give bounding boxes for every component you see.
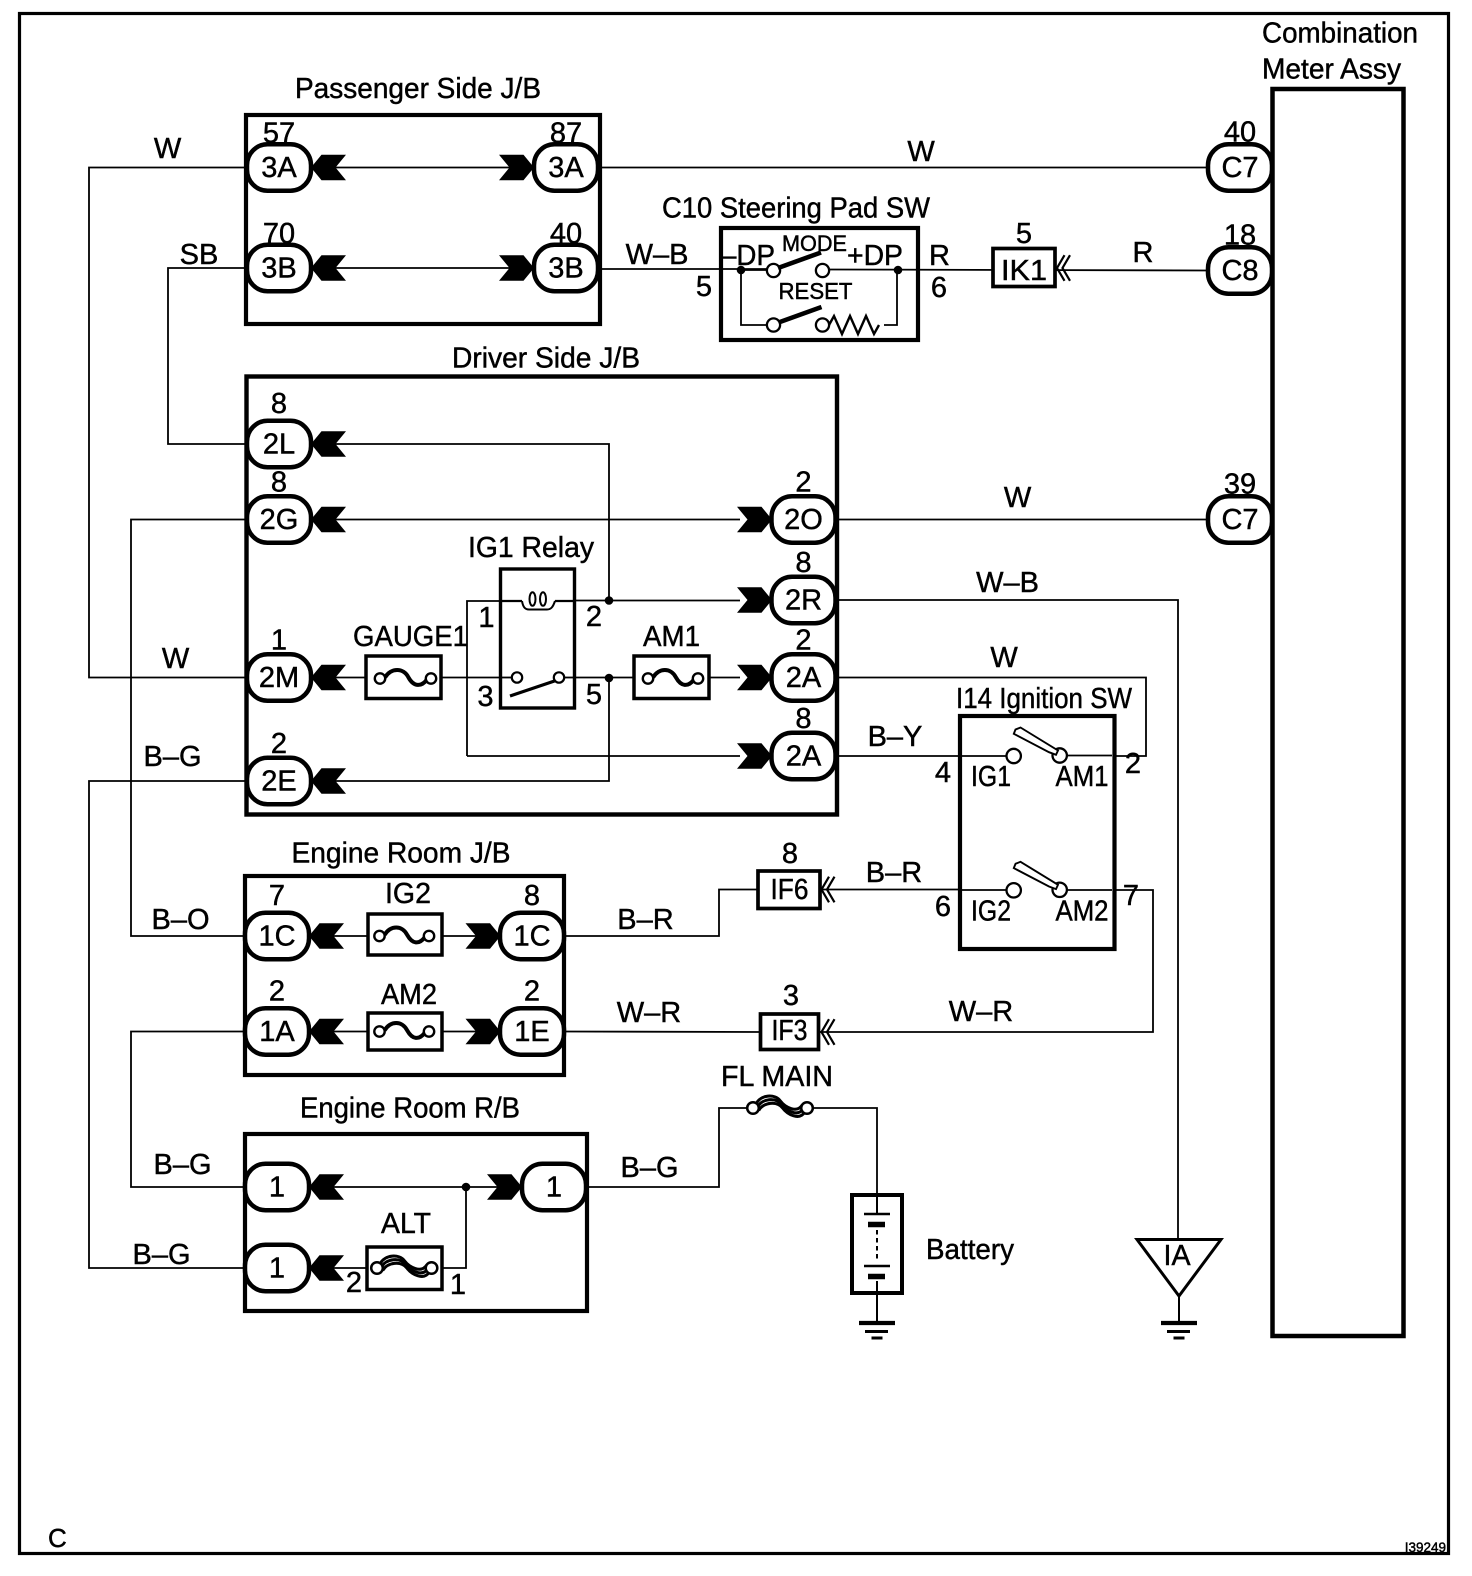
arrow into 1E <box>466 1019 501 1044</box>
svg-text:2: 2 <box>524 976 540 1008</box>
connector 3B pin 70 <box>247 218 311 291</box>
svg-text:R: R <box>929 240 950 272</box>
I14 ignition switch box <box>960 716 1115 949</box>
connector IF6 pin 8 <box>758 838 835 909</box>
svg-text:2A: 2A <box>786 741 822 773</box>
combination meter assy box <box>1273 89 1404 1336</box>
svg-text:57: 57 <box>263 118 295 150</box>
junction dot relay pin2 node <box>605 596 614 605</box>
svg-text:3: 3 <box>783 980 799 1012</box>
wire inside Passenger J/B row 3B <box>311 267 534 269</box>
wire inside Passenger J/B row 3A <box>311 167 534 169</box>
connector 2E pin 2 <box>247 728 311 804</box>
arrow into 2E <box>311 768 346 793</box>
wire B-R: IF6 to ignition switch pin 6 IG2 <box>820 889 962 891</box>
svg-text:B–G: B–G <box>143 741 201 773</box>
wire inside Engine Room J/B row 1A <box>309 1031 502 1033</box>
svg-text:W: W <box>990 642 1018 674</box>
svg-text:40: 40 <box>1224 117 1256 149</box>
svg-text:2: 2 <box>586 601 602 633</box>
svg-text:8: 8 <box>795 547 811 579</box>
svg-text:Meter Assy: Meter Assy <box>1262 54 1401 86</box>
svg-text:1C: 1C <box>258 921 295 953</box>
wire B-R: 1C to connector IF6 <box>562 890 758 937</box>
svg-text:W–B: W–B <box>626 239 689 271</box>
connector 2A pin 2 <box>772 625 836 701</box>
arrow into 1 lower <box>309 1255 344 1280</box>
arrow into 2R <box>737 587 772 612</box>
svg-text:W: W <box>907 136 935 168</box>
arrow into 3A left <box>311 155 346 180</box>
svg-text:8: 8 <box>524 880 540 912</box>
wire SB net: 3B left down to 2L <box>168 268 247 444</box>
svg-text:W: W <box>154 133 182 165</box>
fusible link FL MAIN <box>721 1061 833 1116</box>
svg-text:40: 40 <box>550 218 582 250</box>
battery <box>852 1195 1014 1321</box>
svg-text:C8: C8 <box>1221 255 1258 287</box>
svg-text:3: 3 <box>477 681 493 713</box>
svg-text:I39249: I39249 <box>1405 1540 1446 1555</box>
arrow into 2A lower <box>737 743 772 768</box>
svg-text:2L: 2L <box>263 429 295 461</box>
wire B-G net: 2E left down to Engine Room R/B lower 1 <box>89 781 247 1268</box>
connector 2A pin 8 <box>772 703 836 779</box>
ignition switch IG1-AM1 contacts <box>971 728 1109 794</box>
svg-text:MODE: MODE <box>782 231 847 256</box>
arrow into 2G <box>311 507 346 532</box>
svg-text:AM1: AM1 <box>643 621 700 653</box>
ignition switch IG2-AM2 contacts <box>971 862 1109 928</box>
svg-text:87: 87 <box>550 118 582 150</box>
svg-text:2: 2 <box>346 1267 362 1299</box>
svg-text:B–O: B–O <box>151 904 209 936</box>
wire W: 2O to meter C7 pin 39 <box>837 519 1209 521</box>
svg-text:B–Y: B–Y <box>868 721 923 753</box>
connector C7 pin 40 on meter <box>1208 117 1272 191</box>
svg-text:IF3: IF3 <box>772 1015 808 1047</box>
svg-text:8: 8 <box>271 388 287 420</box>
svg-text:W–R: W–R <box>949 996 1013 1028</box>
svg-text:2A: 2A <box>786 662 822 694</box>
arrow into 1A <box>309 1019 344 1044</box>
wire 2G to 2O inside Driver J/B <box>311 519 740 521</box>
svg-text:Battery: Battery <box>926 1234 1014 1266</box>
svg-text:C7: C7 <box>1221 504 1258 536</box>
connector IK1 pin 5 <box>993 218 1070 287</box>
wire relay pin 1 stub and drop to B-Y row <box>467 601 502 756</box>
svg-text:FL MAIN: FL MAIN <box>721 1061 833 1093</box>
svg-text:1C: 1C <box>513 921 550 953</box>
svg-text:3B: 3B <box>261 253 296 285</box>
connector IF3 pin 3 <box>761 980 835 1050</box>
svg-text:+DP: +DP <box>847 240 903 272</box>
wire R: steering pad switch pin 6 to IK1 to meter C8 pin 18 <box>829 270 1209 271</box>
battery ground symbol <box>859 1323 895 1338</box>
svg-text:AM1: AM1 <box>1056 761 1109 793</box>
svg-text:IG1: IG1 <box>971 761 1011 793</box>
svg-text:18: 18 <box>1224 220 1256 252</box>
connector 3A pin 57 <box>247 118 311 191</box>
connector 1 lower <box>245 1245 309 1291</box>
svg-text:1: 1 <box>269 1172 285 1204</box>
svg-text:1: 1 <box>546 1172 562 1204</box>
IA ground symbol <box>1161 1323 1197 1338</box>
svg-text:2: 2 <box>271 728 287 760</box>
svg-text:B–R: B–R <box>617 904 673 936</box>
connector 1C pin 8 <box>500 880 564 959</box>
svg-text:I14 Ignition SW: I14 Ignition SW <box>956 683 1133 715</box>
svg-text:RESET: RESET <box>779 278 853 304</box>
junction block Engine Room R/B box <box>245 1134 587 1311</box>
svg-text:IG2: IG2 <box>971 896 1011 928</box>
svg-text:W–B: W–B <box>976 567 1039 599</box>
wire junction drop to ALT fusible link <box>443 1187 466 1268</box>
wire W-B: 2R to ground point IA <box>837 600 1178 1240</box>
junction dot relay pin5 node <box>605 674 614 683</box>
svg-text:2R: 2R <box>785 585 822 617</box>
arrow into 3B left <box>311 255 346 280</box>
connector 3B pin 40 <box>534 218 598 291</box>
arrow into 2O <box>737 507 772 532</box>
relay IG1 box <box>501 569 575 708</box>
svg-text:IF6: IF6 <box>771 874 809 906</box>
svg-text:B–R: B–R <box>866 857 922 889</box>
svg-text:6: 6 <box>931 272 947 304</box>
svg-text:1: 1 <box>271 625 287 657</box>
arrow into 1 right <box>487 1174 522 1199</box>
svg-text:8: 8 <box>782 838 798 870</box>
wire W: 3A(87) to combination meter C7 pin 40 <box>600 167 1209 169</box>
svg-text:AM2: AM2 <box>1056 896 1109 928</box>
wire 2E up to relay pin 5 node <box>311 678 609 781</box>
connector C8 pin 18 on meter <box>1208 220 1272 294</box>
svg-text:Engine Room R/B: Engine Room R/B <box>300 1093 520 1125</box>
svg-text:IK1: IK1 <box>1001 255 1047 287</box>
arrow into 2L <box>311 431 346 456</box>
svg-text:1E: 1E <box>514 1016 549 1048</box>
svg-text:5: 5 <box>586 679 602 711</box>
svg-text:Combination: Combination <box>1262 18 1418 50</box>
steering pad switch internals: MODE switch and RESET switch with resistor <box>721 231 903 334</box>
svg-text:3B: 3B <box>548 253 583 285</box>
connector 3A pin 87 <box>534 118 598 191</box>
svg-text:1: 1 <box>478 602 494 634</box>
svg-text:IG2: IG2 <box>385 878 431 910</box>
connector 2M pin 1 <box>247 625 311 701</box>
wire relay pin 2 to 2R <box>576 600 740 602</box>
svg-text:6: 6 <box>935 891 951 923</box>
arrow into 1 upper <box>309 1174 344 1199</box>
junction dot Engine Room R/B <box>462 1183 471 1192</box>
svg-text:C10 Steering Pad SW: C10 Steering Pad SW <box>662 193 931 225</box>
wire W: 2A to ignition switch pin 2 AM1 <box>837 678 1146 757</box>
svg-text:2O: 2O <box>784 504 823 536</box>
arrow into 3B right <box>499 255 534 280</box>
svg-text:39: 39 <box>1224 469 1256 501</box>
wire relay pin 5 through AM1 fuse to 2A <box>574 677 740 679</box>
fuse IG2 <box>368 878 442 955</box>
arrow into 1C left <box>309 923 344 948</box>
C10 steering pad switch box <box>721 228 918 340</box>
svg-text:2: 2 <box>795 467 811 499</box>
svg-text:W: W <box>1004 482 1032 514</box>
arrow into 2M <box>311 665 346 690</box>
svg-text:1: 1 <box>450 1269 466 1301</box>
svg-text:4: 4 <box>935 757 951 789</box>
svg-text:2: 2 <box>269 976 285 1008</box>
svg-text:W: W <box>162 643 190 675</box>
fuse AM1 <box>634 621 709 699</box>
arrow into 2A upper <box>737 665 772 690</box>
svg-text:1: 1 <box>269 1253 285 1285</box>
svg-text:8: 8 <box>795 703 811 735</box>
svg-text:SB: SB <box>180 239 219 271</box>
svg-text:7: 7 <box>269 880 285 912</box>
wire inside Engine Room J/B row 1C <box>309 935 502 937</box>
wire B-Y: 2A to ignition switch pin 4 IG1 <box>837 755 962 757</box>
arrow into 1C right <box>466 923 501 948</box>
svg-text:AM2: AM2 <box>381 979 437 1011</box>
svg-text:Engine Room J/B: Engine Room J/B <box>292 838 511 870</box>
wire B-G: right 1 oval to FL MAIN fusible link <box>584 1108 748 1187</box>
svg-text:7: 7 <box>1123 880 1139 912</box>
svg-text:GAUGE1: GAUGE1 <box>353 621 468 653</box>
svg-text:IG1 Relay: IG1 Relay <box>468 532 594 564</box>
label Combination Meter Assy <box>1262 18 1418 86</box>
connector C7 pin 39 on meter <box>1208 469 1272 543</box>
svg-text:C7: C7 <box>1221 152 1258 184</box>
wire ignition switch pins inside I14 row IG1 <box>962 755 1007 757</box>
wire inside Engine Room R/B row 1 with junction <box>309 1186 524 1188</box>
wire 2M through GAUGE1 fuse to relay pin 3 <box>311 677 502 679</box>
wire B-Y row to lower 2A <box>467 755 740 757</box>
svg-text:8: 8 <box>271 467 287 499</box>
wire 2L to relay pin 2 node <box>311 444 609 601</box>
connector 2L pin 8 <box>247 388 311 467</box>
svg-text:B–G: B–G <box>620 1152 678 1184</box>
svg-text:2: 2 <box>1125 748 1141 780</box>
wire B-G net: 1A left down to Engine Room R/B upper 1 <box>131 1032 247 1188</box>
relay IG1 contact switch <box>502 672 574 696</box>
relay IG1 coil <box>502 592 574 609</box>
connector 1E pin 2 <box>500 976 564 1055</box>
connector 1A pin 2 <box>245 976 309 1055</box>
wire FL MAIN to battery positive <box>812 1108 877 1196</box>
svg-text:C: C <box>48 1523 67 1553</box>
fuse GAUGE1 <box>353 621 468 699</box>
svg-text:B–G: B–G <box>132 1239 190 1271</box>
svg-text:W–R: W–R <box>617 997 681 1029</box>
connector 2O pin 2 <box>772 467 836 543</box>
wire ignition switch pins inside I14 row IG2 <box>962 889 1007 891</box>
svg-text:5: 5 <box>696 271 712 303</box>
svg-text:70: 70 <box>263 218 295 250</box>
connector 1C pin 7 <box>245 880 309 959</box>
junction block Engine Room J/B box <box>245 876 564 1075</box>
svg-text:Driver Side J/B: Driver Side J/B <box>452 343 640 375</box>
svg-text:Passenger Side J/B: Passenger Side J/B <box>295 73 541 105</box>
svg-text:2E: 2E <box>261 766 296 798</box>
svg-text:5: 5 <box>1016 218 1032 250</box>
svg-text:R: R <box>1133 237 1154 269</box>
svg-text:ALT: ALT <box>381 1208 431 1240</box>
svg-text:1A: 1A <box>259 1016 295 1048</box>
wire W-B: 3B(40) to steering pad switch pin 5 <box>600 268 768 270</box>
arrow into 3A right <box>499 155 534 180</box>
fusible link ALT <box>367 1208 442 1290</box>
svg-text:B–G: B–G <box>153 1149 211 1181</box>
junction block Driver Side J/B box <box>247 377 838 815</box>
connector 2R pin 8 <box>772 547 836 623</box>
junction block Passenger Side J/B box <box>246 115 600 324</box>
wire W net: from node at x89 3A row down to 2M <box>89 168 247 678</box>
connector 1 right <box>522 1164 586 1210</box>
connector 1 upper <box>245 1164 309 1210</box>
wire inside Engine Room R/B row ALT <box>309 1267 368 1269</box>
wire W-R: ignition switch pin 7 AM2 down to IF3 <box>820 890 1153 1032</box>
svg-text:2M: 2M <box>259 662 299 694</box>
wire W-R: 1E to connector IF3 <box>562 1031 762 1034</box>
fuse AM2 <box>368 979 442 1050</box>
svg-text:IA: IA <box>1164 1240 1192 1272</box>
connector 2G pin 8 <box>247 467 311 543</box>
ground point IA triangle <box>1137 1240 1221 1322</box>
svg-text:2: 2 <box>795 625 811 657</box>
wire B-O net: 2G left down to 1C <box>131 520 247 937</box>
svg-text:2G: 2G <box>260 504 299 536</box>
svg-text:3A: 3A <box>261 152 297 184</box>
svg-text:3A: 3A <box>548 152 584 184</box>
